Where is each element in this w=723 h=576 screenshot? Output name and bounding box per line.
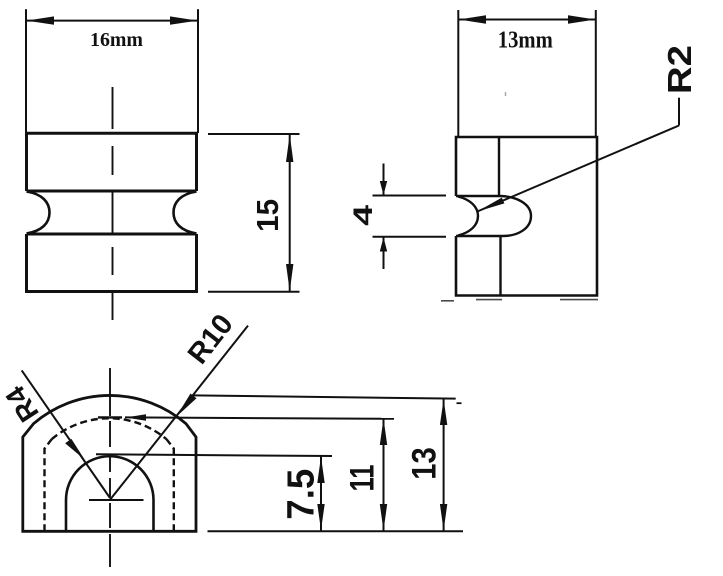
dimension 4 line lower: [383, 237, 385, 269]
svg-text:15: 15: [250, 199, 285, 232]
dimension 15 line: [289, 134, 291, 292]
dimension 16mm right arrowhead: [170, 16, 198, 24]
dimension 11 line: [383, 418, 385, 531]
svg-text:4: 4: [348, 205, 378, 226]
R10 radial leader line: [110, 326, 248, 500]
svg-text:11: 11: [344, 465, 382, 492]
dimension 4 extension lines: [373, 196, 447, 237]
dimension 13mm left arrowhead: [459, 15, 486, 23]
dimension 15 top arrowhead: [286, 135, 293, 163]
side view slot rounded end arc: [500, 196, 531, 236]
svg-text:R2: R2: [661, 45, 698, 94]
bottom view outline: [23, 395, 196, 531]
front view right notch R2: [174, 192, 197, 234]
dimension 11 top arrowhead: [380, 418, 387, 445]
side view center mark: [505, 92, 507, 96]
dimension 15 bottom arrowhead: [286, 264, 293, 291]
R4 leader arrowhead: [65, 439, 84, 460]
dimension 7.5 bottom arrowhead: [317, 504, 324, 530]
dimension 7.5 extension line: [96, 454, 332, 456]
front view outline: [27, 133, 197, 291]
R2 leader stub: [678, 98, 680, 126]
bottom edge extension line: [208, 530, 464, 532]
dimension 7.5 top arrowhead: [317, 457, 324, 483]
svg-text:R10: R10: [182, 309, 240, 371]
dimension 15 extension lines: [208, 134, 300, 292]
R10 leader arrowhead: [176, 394, 196, 417]
bottom view hidden profile right line: [167, 439, 174, 531]
dimension 4 lower arrowhead: [380, 237, 387, 251]
R2 leader arrowhead: [477, 198, 504, 212]
dimension 16mm left arrowhead: [27, 16, 55, 24]
bottom view vertical center line: [109, 368, 111, 567]
R2 leader line: [477, 126, 679, 212]
dimension 4 upper arrowhead: [380, 181, 387, 195]
bottom view inner arch: [66, 456, 154, 531]
R4 radial leader line: [22, 370, 110, 498]
svg-text:7.5: 7.5: [280, 469, 322, 520]
side view slot inner arc: [458, 197, 478, 236]
front view left notch R2: [27, 192, 50, 234]
front view vertical center line: [112, 87, 114, 320]
dimension 7.5 line: [320, 456, 322, 530]
side view slot bottom edge: [456, 235, 503, 237]
dimension 11 extension line with left arrowhead: [125, 417, 394, 418]
dimension 11 bottom arrowhead: [380, 504, 387, 531]
bottom view hidden profile left line: [45, 439, 52, 531]
dimension 13 bottom arrowhead: [440, 504, 447, 531]
svg-text:16mm: 16mm: [90, 29, 143, 51]
bottom view horizontal center tick: [89, 499, 144, 501]
svg-text:13mm: 13mm: [498, 27, 553, 53]
scan echo under side view bottom edge: [441, 300, 598, 301]
dimension 13mm extension lines: [458, 10, 596, 137]
dimension 16mm extension lines: [26, 9, 198, 133]
dimension 13mm right arrowhead: [568, 15, 595, 23]
dimension 13 top arrowhead: [440, 399, 447, 425]
dimension 13 line: [443, 399, 445, 531]
dimension 13mm line: [458, 19, 596, 21]
dimension 16mm line: [26, 20, 198, 22]
svg-text:13: 13: [406, 447, 444, 480]
side view slot top edge: [456, 195, 500, 197]
side view inner edge line: [499, 137, 501, 296]
dimension 13 extension line: [193, 395, 456, 398]
bottom view hidden profile arc: [52, 418, 167, 439]
dimension 4 line upper: [383, 164, 385, 196]
side view outline: [456, 137, 597, 296]
stray dash mark: [457, 402, 462, 404]
bottom view hidden arc apex dash: [98, 416, 122, 418]
